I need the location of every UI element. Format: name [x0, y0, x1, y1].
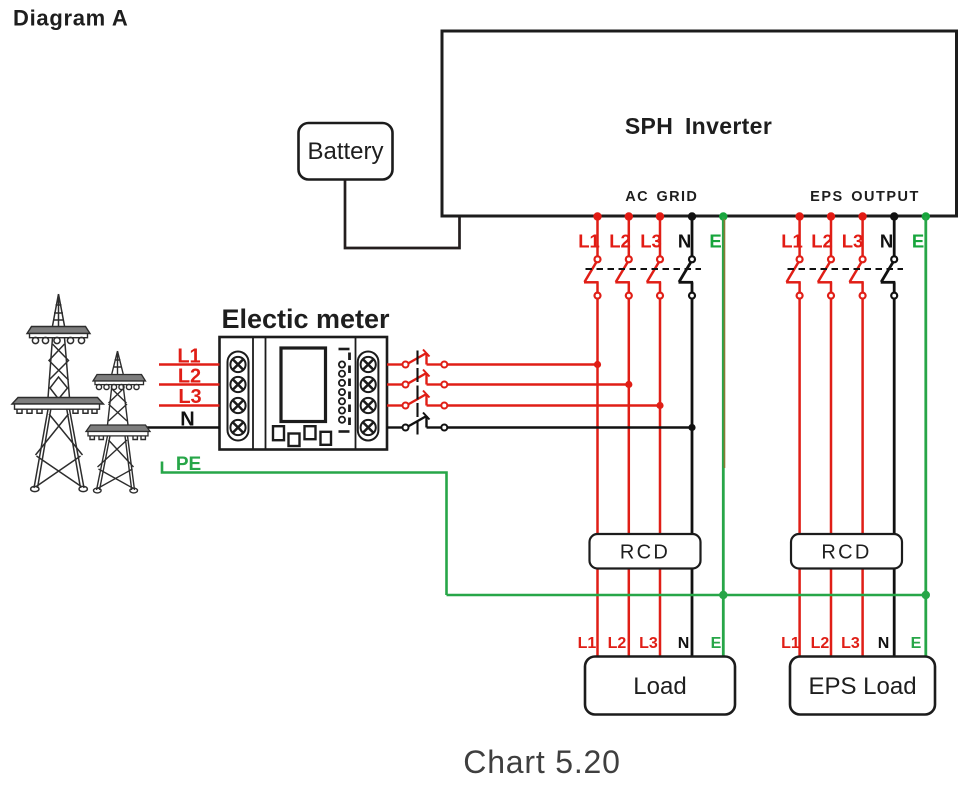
meter screw terminal in L1	[230, 357, 245, 372]
svg-text:E: E	[711, 635, 722, 652]
wire EPS L2 RCD to load	[830, 569, 833, 657]
breaker EPS N	[881, 221, 898, 535]
junction AC N	[688, 424, 695, 431]
svg-text:N: N	[180, 409, 194, 431]
meter right screw N	[361, 420, 376, 435]
node AC E terminal	[719, 212, 727, 220]
wire battery to inverter	[345, 180, 460, 249]
svg-text:L1: L1	[578, 635, 597, 652]
switch meter out L1	[387, 350, 595, 368]
meter right screw L3	[361, 398, 376, 413]
wire L3 into meter	[159, 404, 220, 407]
meter divider right	[355, 337, 357, 450]
meter dashed bracket	[339, 348, 350, 351]
junction AC L2	[625, 381, 632, 388]
wire EPS N RCD to load	[893, 569, 896, 657]
wire AC L1 RCD to load	[596, 569, 599, 657]
svg-text:RCD: RCD	[620, 542, 670, 564]
meter right terminal strip	[358, 352, 379, 441]
svg-text:L1: L1	[177, 346, 200, 368]
gang link dashed AC	[586, 268, 702, 270]
svg-text:EPS Load: EPS Load	[808, 673, 916, 700]
meter screw terminal in L3	[230, 398, 245, 413]
wire EPS L3 RCD to load	[861, 569, 864, 657]
svg-text:L2: L2	[608, 635, 627, 652]
node AC L3 terminal	[656, 212, 664, 220]
node EPS E terminal	[922, 212, 930, 220]
svg-text:EPS OUTPUT: EPS OUTPUT	[810, 189, 920, 205]
electric meter body	[220, 337, 388, 450]
svg-text:SPH Inverter: SPH Inverter	[625, 113, 772, 139]
svg-text:L2: L2	[811, 231, 833, 252]
svg-text:L3: L3	[639, 635, 658, 652]
breaker AC L3	[647, 221, 664, 535]
svg-text:E: E	[911, 635, 922, 652]
wire PE	[162, 462, 447, 596]
node EPS L1 terminal	[795, 212, 803, 220]
switch meter out L2	[387, 370, 626, 388]
meter right screw L2	[361, 377, 376, 392]
switch meter out N	[387, 413, 690, 431]
wire AC E olive overlay	[724, 219, 726, 468]
meter display	[281, 348, 326, 422]
meter button 2	[289, 434, 300, 447]
gang link dashed EPS	[788, 268, 904, 270]
wire EPS E vertical	[924, 217, 927, 657]
meter screw terminal in L2	[230, 377, 245, 392]
wire L1 into meter	[159, 363, 220, 366]
svg-text:L1: L1	[781, 635, 800, 652]
svg-text:E: E	[912, 231, 924, 252]
meter button 4	[321, 432, 332, 445]
svg-text:L3: L3	[178, 386, 201, 408]
svg-text:L3: L3	[640, 231, 662, 252]
svg-text:Battery: Battery	[307, 138, 383, 165]
svg-text:AC GRID: AC GRID	[625, 189, 698, 205]
junction AC L1	[594, 361, 601, 368]
svg-text:L3: L3	[841, 635, 860, 652]
meter divider lines	[253, 337, 266, 450]
svg-text:Chart 5.20: Chart 5.20	[463, 744, 620, 780]
EPS Load box	[790, 657, 935, 715]
wire AC N RCD to load	[691, 569, 694, 657]
breaker EPS L1	[786, 221, 803, 535]
breaker EPS L3	[849, 221, 866, 535]
svg-text:N: N	[880, 231, 893, 252]
svg-text:E: E	[709, 231, 721, 252]
SPH inverter box	[442, 31, 957, 216]
meter button 1	[273, 426, 284, 440]
transmission tower large	[12, 294, 104, 492]
meter right screw L1	[361, 357, 376, 372]
node AC L1 terminal	[593, 212, 601, 220]
breaker AC N	[679, 221, 696, 535]
node EPS L2 terminal	[827, 212, 835, 220]
svg-text:L3: L3	[842, 231, 864, 252]
svg-text:N: N	[678, 635, 690, 652]
node EPS N terminal	[890, 212, 898, 220]
svg-text:N: N	[878, 635, 890, 652]
svg-text:L2: L2	[178, 366, 201, 388]
gang link meter switches	[416, 351, 418, 437]
svg-text:RCD: RCD	[821, 542, 871, 564]
svg-text:L2: L2	[811, 635, 830, 652]
breaker AC L2	[615, 221, 632, 535]
wire AC E vertical	[722, 217, 725, 657]
svg-text:Diagram A: Diagram A	[13, 6, 129, 31]
earth bus node EPS	[922, 591, 930, 599]
earth bus node AC	[719, 591, 727, 599]
junction AC L3	[656, 402, 663, 409]
meter small terminals column	[339, 361, 345, 422]
wire AC L3 RCD to load	[659, 569, 662, 657]
wire EPS L1 RCD to load	[798, 569, 801, 657]
svg-text:Electic meter: Electic meter	[221, 304, 390, 334]
node AC N terminal	[688, 212, 696, 220]
RCD box AC	[590, 534, 701, 569]
svg-text:Load: Load	[633, 673, 686, 700]
svg-text:N: N	[678, 231, 691, 252]
wire L2 into meter	[159, 383, 220, 386]
breaker AC L1	[584, 221, 601, 535]
battery box	[299, 123, 393, 180]
node EPS L3 terminal	[858, 212, 866, 220]
RCD box EPS	[791, 534, 902, 569]
node AC L2 terminal	[625, 212, 633, 220]
wire AC L2 RCD to load	[628, 569, 631, 657]
transmission tower small	[86, 351, 150, 493]
meter screw terminal in N	[230, 420, 245, 435]
breaker EPS L2	[818, 221, 835, 535]
Load box	[585, 657, 735, 715]
earth bus wire	[447, 594, 926, 597]
wire N into meter	[147, 426, 220, 429]
meter button 3	[305, 426, 316, 439]
meter left terminal strip	[228, 352, 249, 441]
switch meter out L3	[387, 391, 658, 409]
